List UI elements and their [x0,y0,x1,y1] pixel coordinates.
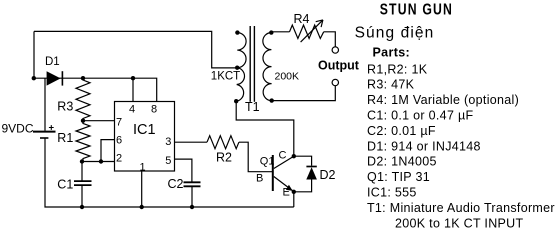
svg-text:C1: 0.1 or 0.47 µF: C1: 0.1 or 0.47 µF [367,109,473,123]
svg-text:R4: 1M Variable (optional): R4: 1M Variable (optional) [367,93,519,107]
battery plus sign [49,125,54,130]
svg-text:D1: 914 or INJ4148: D1: 914 or INJ4148 [367,139,481,153]
svg-text:E: E [283,187,290,199]
svg-text:D1: D1 [45,56,60,68]
R4 arrow diagonal [301,20,323,42]
svg-text:IC1: 555: IC1: 555 [367,186,417,200]
diode D2 cathode bar [306,166,316,168]
svg-text:T1: Miniature Audio Transforme: T1: Miniature Audio Transformer [367,201,555,215]
capacitor C1 leads [81,162,83,181]
wire pin 5 to C2 [175,159,192,182]
node dot collector [292,154,296,158]
svg-text:Parts:: Parts: [373,45,411,59]
svg-text:D2: D2 [320,168,336,182]
node dot primary bottom [234,99,238,103]
svg-text:C: C [279,150,287,162]
svg-text:C2: 0.01 µF: C2: 0.01 µF [367,124,436,138]
battery plate short [40,137,48,139]
svg-text:STUN GUN: STUN GUN [380,0,453,18]
output terminal bottom circle [332,79,338,85]
svg-text:200K: 200K [275,71,300,83]
svg-text:Q1: Q1 [260,155,275,167]
emitter arrow head [286,185,293,191]
svg-text:R3: 47K: R3: 47K [367,78,415,92]
transformer T1 core lines [249,26,251,102]
node dot pin 7 / R3-R1 [81,119,85,123]
wire top rail from left corner to transformer branch [34,31,237,68]
svg-text:Output: Output [318,59,360,73]
svg-text:R1,R2: 1K: R1,R2: 1K [367,62,428,76]
svg-text:1: 1 [140,162,146,174]
node dot top-left corner D1 wire [32,76,36,80]
resistor R4 zigzag (variable) [290,25,324,38]
svg-text:4: 4 [129,104,135,116]
svg-text:C2: C2 [168,177,184,191]
svg-text:B: B [256,173,263,185]
resistor R3 zigzag [76,78,90,121]
svg-text:C1: C1 [57,178,73,192]
wire secondary bottom to output bottom terminal [272,86,336,101]
svg-text:R2: R2 [216,151,232,165]
transformer T1 primary upper winding [237,33,246,68]
svg-text:R1: R1 [57,131,73,145]
svg-text:D2: 1N4005: D2: 1N4005 [367,155,437,169]
svg-text:9VDC: 9VDC [2,122,34,136]
svg-text:Q1: TIP 31: Q1: TIP 31 [367,170,430,184]
transformer T1 secondary winding [263,33,272,101]
svg-text:T1: T1 [245,100,260,114]
svg-text:2: 2 [116,153,122,165]
resistor R1 zigzag [76,121,90,162]
wire pin 3 out [175,141,208,143]
svg-text:200K to 1K CT INPUT: 200K to 1K CT INPUT [395,216,523,230]
capacitor C2 plates [184,181,201,183]
wire emitter to ground rail [293,192,295,207]
wire D2 bottom to emitter node [294,180,312,192]
svg-text:IC1: IC1 [133,122,156,138]
svg-text:R3: R3 [57,100,73,114]
diode D2 triangle [306,167,317,179]
diode D1 triangle and bar [47,71,61,85]
transistor Q1 emitter diagonal [274,177,294,192]
node dot pin 4 [131,76,135,80]
node dot pin6 loop junction [99,159,103,163]
wire pin 4 stub [132,78,134,101]
node dot C2 ground [190,205,194,209]
svg-text:Súng điện: Súng điện [355,25,435,42]
transformer T1 primary lower winding [236,68,244,102]
node dot C1 ground [80,205,84,209]
resistor R2 zigzag [207,136,239,149]
wire pin 2 [82,161,115,163]
wire pin 1 to ground [141,171,143,207]
wire R4 to output top terminal [324,32,336,47]
capacitor C1 plates [74,180,92,182]
node dot primary center tap [235,66,239,70]
svg-text:7: 7 [116,117,122,129]
svg-text:3: 3 [165,136,171,148]
svg-text:8: 8 [151,104,157,116]
wire left rail top (corner down to D1 wire) [33,31,35,78]
battery stem bottom + bottom ground rail [45,138,294,207]
capacitor C2 lower lead [191,187,193,207]
svg-text:1KCT: 1KCT [211,71,240,83]
node dot emitter [292,190,296,194]
svg-text:R4: R4 [294,12,310,26]
transistor Q1 collector diagonal [274,156,294,168]
transistor Q1 base bar [272,155,274,191]
wire R2 to Q1 base [239,142,272,172]
node dot secondary bottom [270,98,274,102]
battery stem top [44,78,46,131]
wire pin 6 loop to pin 2 net [101,140,115,162]
svg-text:5: 5 [165,155,171,167]
op-amp/timer IC1 555 box [115,102,175,172]
battery plate long [33,131,56,133]
node dot R1-C1-pin2 [80,159,84,163]
node dot R3 top [81,76,85,80]
wire pin 7 [83,120,115,122]
node dot pin1 ground [140,205,144,209]
wire collector to D2 top [294,156,312,166]
node dot primary top [235,30,239,34]
wire secondary top to R4 [271,31,289,33]
wire transformer primary bottom to collector [236,101,294,156]
output terminal top circle [332,47,338,53]
node dot secondary top [269,30,273,34]
wire D1 horizontal V+ rail [34,78,157,101]
svg-text:6: 6 [116,135,122,147]
